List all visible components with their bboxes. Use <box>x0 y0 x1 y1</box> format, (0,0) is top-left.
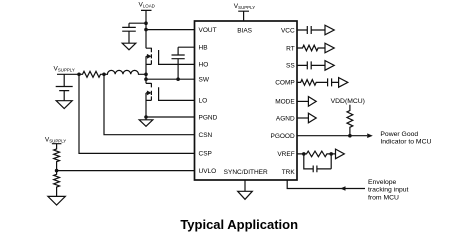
svg-text:RT: RT <box>286 45 295 52</box>
svg-text:VSUPPLY: VSUPPLY <box>54 66 75 73</box>
svg-text:VSUPPLY: VSUPPLY <box>234 3 255 10</box>
svg-text:Power Good: Power Good <box>380 131 418 138</box>
svg-text:VCC: VCC <box>281 27 295 34</box>
svg-text:VLOAD: VLOAD <box>139 2 155 9</box>
svg-text:VREF: VREF <box>277 151 294 158</box>
svg-text:HO: HO <box>199 61 209 68</box>
svg-text:PGND: PGND <box>199 114 218 121</box>
svg-text:VDD(MCU): VDD(MCU) <box>331 98 365 105</box>
svg-text:LO: LO <box>199 97 208 104</box>
svg-text:SS: SS <box>286 63 295 70</box>
svg-text:tracking input: tracking input <box>368 187 409 194</box>
svg-text:CSP: CSP <box>199 151 212 158</box>
svg-text:MODE: MODE <box>275 99 295 106</box>
svg-text:UVLO: UVLO <box>199 168 217 175</box>
svg-text:VOUT: VOUT <box>199 27 217 34</box>
svg-text:VSUPPLY: VSUPPLY <box>45 137 66 144</box>
svg-text:BIAS: BIAS <box>237 27 252 34</box>
svg-text:HB: HB <box>199 45 208 52</box>
svg-text:Typical Application: Typical Application <box>180 217 298 232</box>
svg-text:PGOOD: PGOOD <box>270 133 295 140</box>
svg-text:from MCU: from MCU <box>368 195 399 202</box>
svg-text:COMP: COMP <box>275 80 295 87</box>
svg-text:Envelope: Envelope <box>368 179 397 186</box>
svg-text:SYNC/DITHER: SYNC/DITHER <box>224 169 268 176</box>
svg-text:CSN: CSN <box>199 132 213 139</box>
svg-text:SW: SW <box>199 77 210 84</box>
svg-text:Indicator to MCU: Indicator to MCU <box>380 139 431 146</box>
svg-text:TRK: TRK <box>282 169 296 176</box>
svg-text:AGND: AGND <box>276 115 295 122</box>
